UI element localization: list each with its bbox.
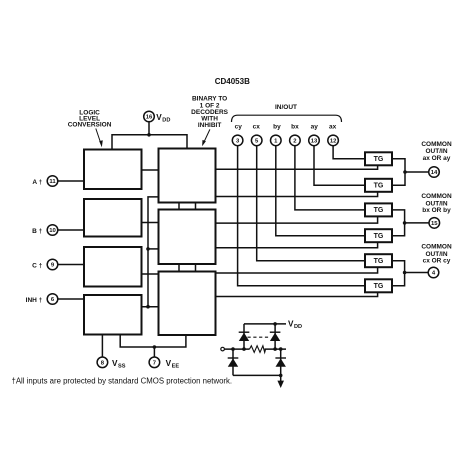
svg-text:TG: TG: [374, 207, 384, 214]
svg-text:TG: TG: [374, 233, 384, 240]
svg-text:TG: TG: [374, 183, 384, 190]
svg-text:COMMON: COMMON: [421, 141, 452, 148]
svg-text:ax: ax: [329, 123, 337, 130]
svg-text:14: 14: [431, 170, 438, 176]
svg-text:16: 16: [146, 115, 153, 121]
svg-text:SS: SS: [118, 364, 126, 370]
svg-text:13: 13: [311, 139, 318, 145]
svg-text:C †: C †: [32, 262, 43, 269]
svg-text:DD: DD: [294, 324, 302, 330]
svg-text:A †: A †: [32, 179, 42, 186]
svg-text:INH †: INH †: [26, 297, 43, 304]
svg-text:IN/OUT: IN/OUT: [275, 104, 297, 111]
svg-text:cx: cx: [253, 123, 261, 130]
svg-text:COMMON: COMMON: [421, 193, 452, 200]
svg-text:TG: TG: [374, 283, 384, 290]
svg-text:TG: TG: [374, 156, 384, 163]
svg-text:10: 10: [49, 228, 56, 234]
svg-text:11: 11: [49, 179, 56, 185]
svg-text:15: 15: [431, 221, 438, 227]
svg-text:cx OR cy: cx OR cy: [423, 258, 451, 265]
svg-text:TG: TG: [374, 258, 384, 265]
svg-text:EE: EE: [172, 364, 180, 370]
svg-text:ay: ay: [311, 123, 319, 130]
svg-text:CONVERSION: CONVERSION: [68, 122, 112, 129]
svg-text:INHIBIT: INHIBIT: [198, 122, 222, 129]
svg-text:by: by: [273, 123, 281, 130]
svg-text:ax OR ay: ax OR ay: [423, 155, 451, 162]
svg-text:12: 12: [330, 139, 337, 145]
svg-text:†All inputs are protected by s: †All inputs are protected by standard CM…: [12, 376, 233, 385]
svg-text:COMMON: COMMON: [421, 244, 452, 251]
svg-text:bx: bx: [291, 123, 299, 130]
svg-text:cy: cy: [235, 123, 243, 130]
svg-text:DD: DD: [162, 117, 170, 123]
svg-text:bx OR by: bx OR by: [422, 207, 451, 214]
svg-text:CD4053B: CD4053B: [215, 77, 250, 86]
svg-text:B †: B †: [32, 228, 43, 235]
